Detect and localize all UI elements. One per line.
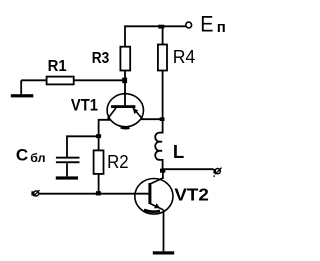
resistor R2 [94, 150, 104, 174]
wire node B to VT2 base and left terminal [39, 193, 148, 195]
terminal Eп circle [186, 22, 192, 28]
wire output right [163, 168, 214, 170]
VT1 base bar [111, 105, 135, 108]
wire node C to R2 [98, 136, 100, 150]
wire VT1 right lead to D3 [141, 118, 163, 120]
node dot D1 top rail to R4 [158, 25, 164, 29]
VT2 emitter arrow [154, 203, 160, 208]
capacitor bottom lead [66, 163, 68, 176]
svg-text:E: E [200, 13, 213, 37]
svg-text:R1: R1 [48, 58, 67, 75]
svg-text:VT1: VT1 [71, 96, 98, 115]
VT2 collector leg [150, 178, 163, 184]
wire top rail [125, 26, 186, 46]
wire R4 top [162, 26, 164, 44]
ground (under capacitor) [56, 176, 78, 179]
VT1 emitter leg [133, 108, 142, 119]
VT1 collector leg [108, 108, 116, 119]
capacitor Cбл plate top [56, 157, 80, 159]
VT2 emitter leg [150, 204, 163, 210]
ground (left, under R1) [20, 80, 22, 94]
node dot D6 (L bottom / output) [160, 169, 165, 173]
VT2 base bar [148, 183, 151, 204]
svg-text:R3: R3 [92, 50, 110, 67]
wire VT1 left lead [99, 120, 110, 137]
inductor L [155, 119, 162, 169]
svg-text:п: п [217, 19, 226, 36]
wire ground to R1 [21, 79, 46, 81]
node dot D3 [160, 117, 165, 121]
wire D6 to VT2 collector [162, 169, 164, 179]
node dot D2 R1/R3/base [122, 78, 127, 84]
VT2 bottom thick arc [144, 210, 160, 212]
transistor VT2 circle [135, 179, 173, 215]
transistor VT1 circle [107, 94, 143, 127]
node dot D4 (node C) [96, 134, 101, 138]
svg-text:С: С [16, 146, 28, 165]
terminal right output [213, 168, 221, 177]
resistor R4 [158, 45, 167, 71]
wire R2 bottom [98, 174, 100, 194]
svg-text:VT2: VT2 [174, 185, 209, 205]
capacitor Cбл plate bottom [56, 161, 80, 163]
wire VT2 emitter down [163, 210, 165, 252]
VT1 emitter arrow [133, 108, 138, 114]
svg-text:бл: бл [30, 151, 45, 165]
svg-text:R4: R4 [173, 47, 196, 67]
wire R3 bottom to VT1 base [124, 71, 126, 106]
node dot D5 (node B) [96, 191, 101, 195]
terminal left output [31, 190, 39, 196]
resistor R1 [47, 77, 74, 85]
wire node C to capacitor [67, 136, 99, 157]
svg-text:L: L [173, 141, 184, 162]
wire R4 bottom [162, 71, 164, 120]
VT1 bottom thick arc [121, 127, 130, 128]
resistor R3 [120, 47, 130, 71]
svg-text:R2: R2 [107, 152, 129, 172]
wire R1 to node D2 [74, 79, 125, 81]
ground (under VT2) [153, 251, 174, 254]
